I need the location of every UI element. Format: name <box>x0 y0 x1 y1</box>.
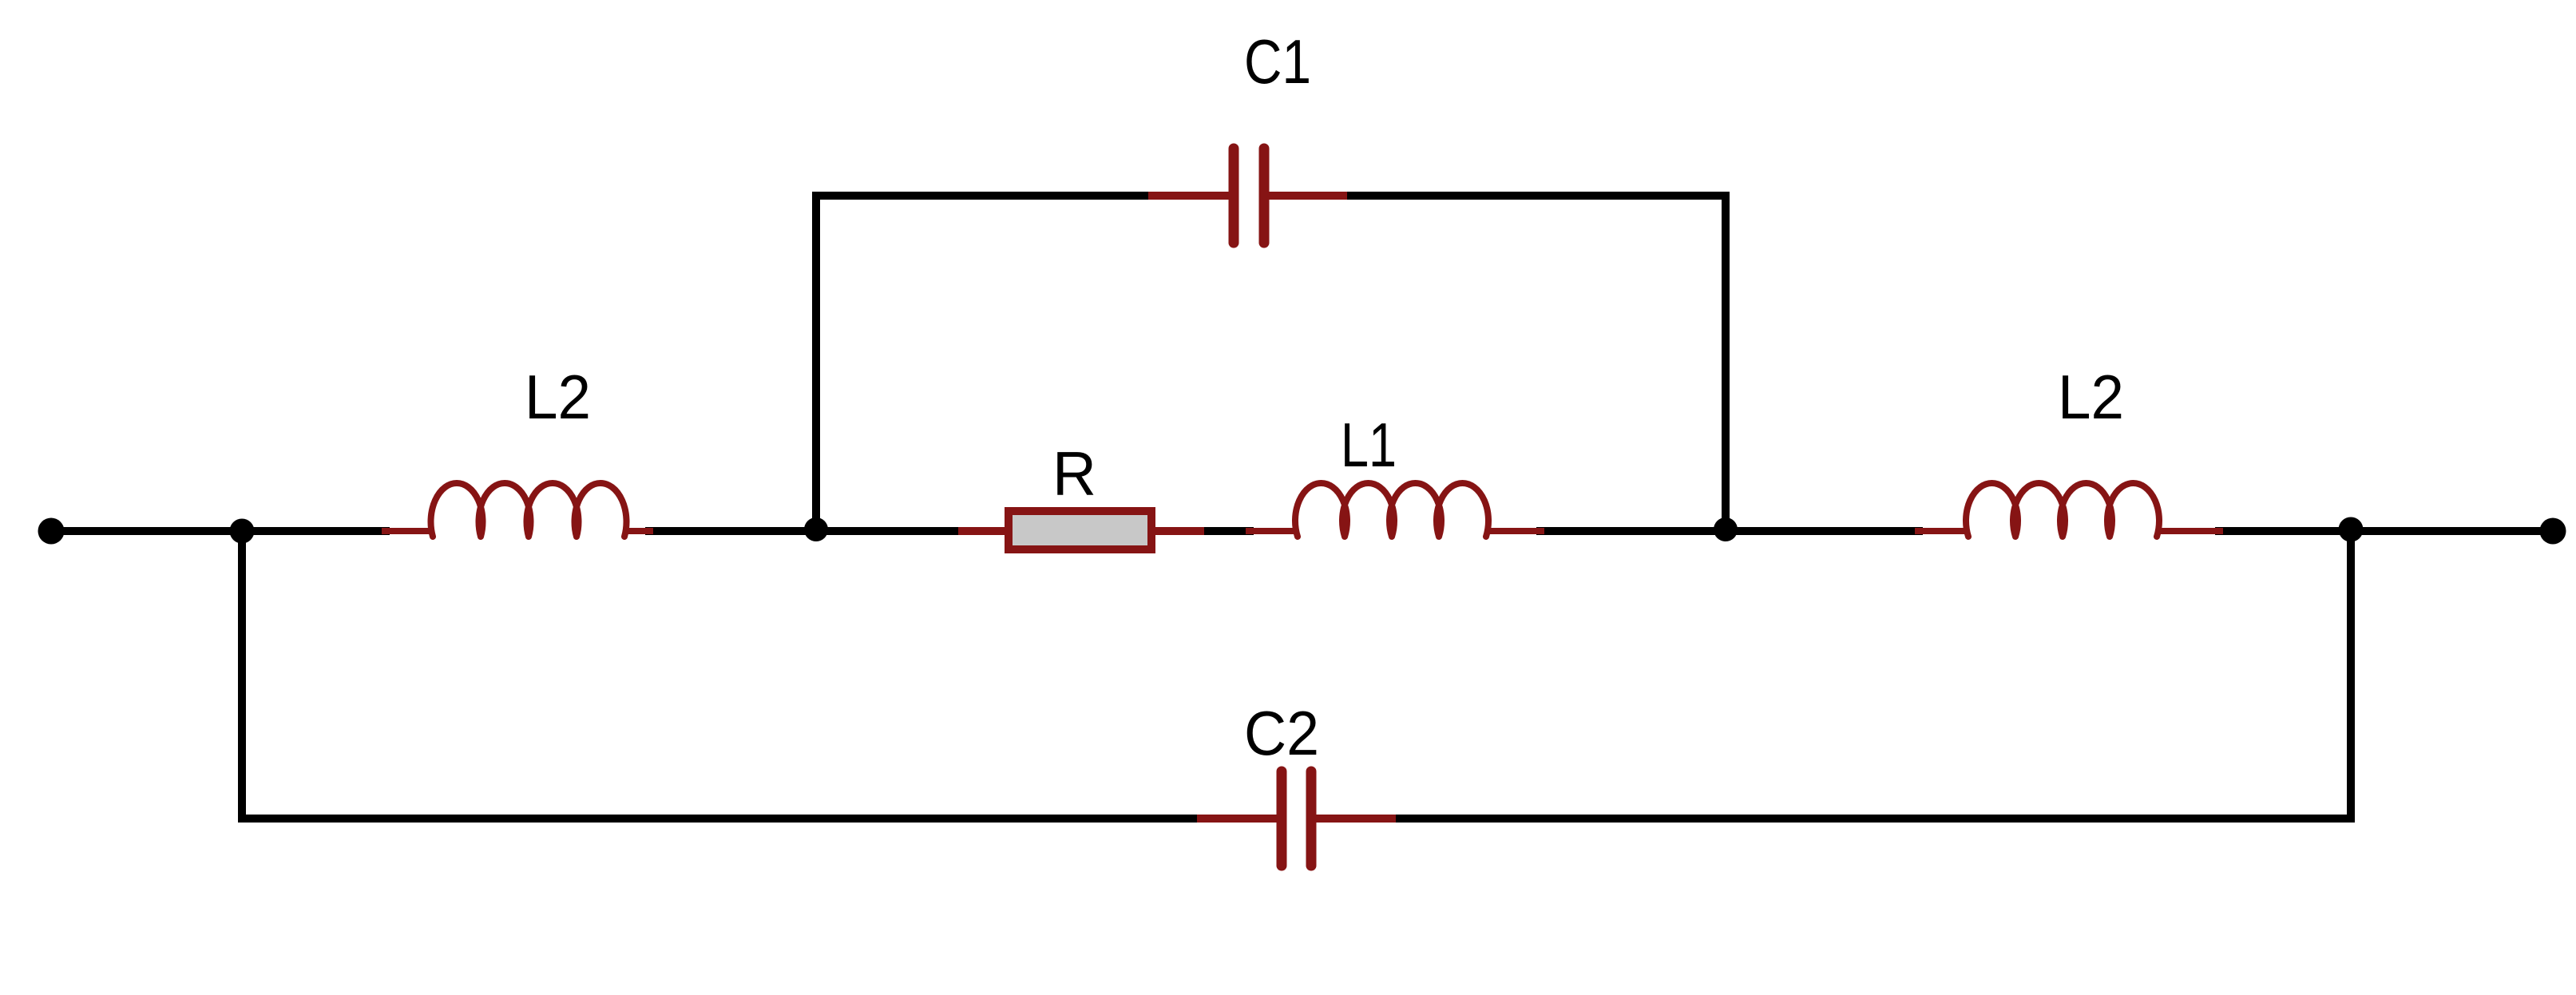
wire: resistor R to inductor L1 <box>1196 527 1254 535</box>
node B (C1 right junction) <box>1714 517 1738 541</box>
inductor L2 (left) <box>382 483 653 537</box>
svg-text:C2: C2 <box>1244 698 1319 768</box>
node A (C1 left junction) <box>804 517 828 541</box>
inductor L2 (right) <box>1915 483 2223 537</box>
terminal dot (left) <box>38 518 65 545</box>
wire: node B to L2-right lead <box>1726 527 1923 535</box>
wire: left terminal to left junction <box>51 527 242 535</box>
svg-text:L2: L2 <box>2058 362 2124 432</box>
wire: left junction to L2-left lead <box>242 527 390 535</box>
resistor R <box>958 511 1204 549</box>
wire: C2 branch left riser and bottom left segment <box>242 531 1202 819</box>
svg-text:R: R <box>1052 438 1096 509</box>
node: left junction <box>230 519 255 544</box>
wire: L2-right to right junction <box>2215 527 2351 535</box>
wire: C1 branch left riser and top left segment <box>816 196 1152 531</box>
wire: right junction to right terminal <box>2351 527 2553 535</box>
svg-text:L1: L1 <box>1341 410 1397 480</box>
capacitor C2 <box>1197 771 1396 866</box>
wire: C2 branch bottom right segment and right riser <box>1391 531 2351 819</box>
node: right junction <box>2339 517 2364 542</box>
inductor L1 <box>1246 483 1544 537</box>
terminal dot (right) <box>2540 518 2566 545</box>
wire: C1 branch top right segment and right riser <box>1343 196 1726 531</box>
wire: L2-left to node A <box>645 527 816 535</box>
svg-text:C1: C1 <box>1244 26 1311 97</box>
capacitor C1 <box>1148 149 1347 243</box>
wire: node A to resistor R lead <box>816 527 966 535</box>
svg-text:L2: L2 <box>525 362 591 432</box>
wire: L1 to node B <box>1536 527 1726 535</box>
